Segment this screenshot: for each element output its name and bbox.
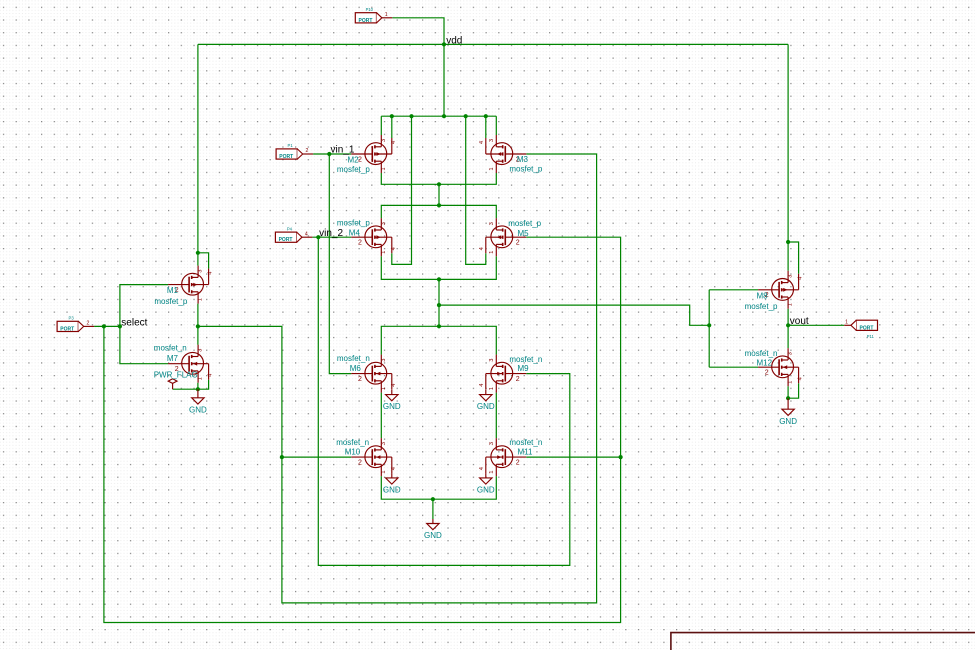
svg-text:3: 3 [489,358,495,361]
svg-text:vin_1: vin_1 [331,145,355,156]
junction vin_1 node [327,152,331,156]
transistor M1 (mosfet_p) [168,266,209,304]
svg-text:1: 1 [381,470,387,473]
svg-text:3: 3 [489,139,495,142]
wire select to M7 gate [120,326,168,363]
wire select port wire [94,325,120,327]
svg-text:M1: M1 [167,286,179,295]
junction vout node [786,323,790,327]
port vin_1 [276,149,313,159]
ground M11 bulk GND [480,473,492,484]
svg-text:3: 3 [381,222,387,225]
wire M12 bulk link [788,383,799,398]
wire select to M5/M11 gates [104,237,621,622]
wire row1-row2 link [438,184,440,205]
ground M7 source GND [192,389,204,404]
svg-text:2: 2 [516,376,520,383]
wire M1/M7 output node [197,304,199,345]
svg-text:2: 2 [358,376,362,383]
junction sub-bus vdd feed [442,114,446,118]
wire select to M1 gate [120,285,168,327]
wire M6 source to M10 drain [380,393,382,439]
junction sub-bus M2 bulk [390,114,394,118]
junction right stage gate node [707,323,711,327]
svg-text:mosfet_p: mosfet_p [154,297,187,306]
junction row1-row2 link top [437,182,441,186]
svg-text:2: 2 [306,148,309,154]
svg-text:3: 3 [489,222,495,225]
wire PWR_FLAG link [173,388,198,390]
transistor M12 (mosfet_n) [758,348,799,386]
svg-text:mosfet_n: mosfet_n [337,354,370,363]
svg-text:3: 3 [198,349,204,352]
transistor M2 (mosfet_p) [351,135,392,173]
wire vin_2 to M9 gate [318,237,570,565]
wire row1 vdd sub-bus [381,115,496,117]
svg-text:mosfet_n: mosfet_n [509,438,542,447]
junction output branch tee [437,303,441,307]
svg-text:M6: M6 [350,364,362,373]
svg-text:P11: P11 [867,334,875,339]
wire vout to M12 drain [787,325,789,348]
svg-text:GND: GND [424,531,442,540]
wire M8 source to vout [787,309,789,326]
svg-text:1: 1 [198,298,204,301]
svg-text:2: 2 [765,370,769,377]
svg-text:3: 3 [381,442,387,445]
svg-text:mosfet_n: mosfet_n [154,344,187,353]
svg-text:3: 3 [489,442,495,445]
junction sub-bus M4 riser [409,114,413,118]
svg-text:3: 3 [198,269,204,272]
wire M12 gate stub [709,366,758,368]
svg-text:mosfet_p: mosfet_p [337,165,370,174]
wire vdd mid drop [443,44,445,116]
svg-text:M2: M2 [348,156,360,165]
ground row4 common GND [427,519,439,530]
svg-text:1: 1 [381,387,387,390]
transistor M9 (mosfet_n) [486,355,527,393]
wire vdd bus [198,43,788,45]
svg-text:2: 2 [516,240,520,247]
junction output node tee [437,324,441,328]
port select [57,321,94,331]
transistor M3 (mosfet_p) [486,135,527,173]
wire M7 bulk link [198,380,209,390]
svg-text:select: select [121,317,147,328]
junction vin_2 node [316,235,320,239]
svg-text:PORT: PORT [860,325,874,331]
svg-text:1: 1 [489,470,495,473]
svg-text:1: 1 [385,12,388,18]
svg-text:1: 1 [788,303,794,306]
wire row2 source bus [381,256,496,279]
port vout [844,320,877,330]
port vin_2 [275,232,312,242]
svg-text:M12: M12 [757,359,773,368]
junction M1 drain/bulk node [196,251,200,255]
svg-text:vin_2: vin_2 [319,228,343,239]
junction M11 gate node [619,455,623,459]
ground M10 bulk GND [386,473,398,484]
wire vdd port to bus [392,18,444,45]
wire M8 gate stub [709,289,758,291]
svg-text:PWR_FLAG: PWR_FLAG [154,370,198,379]
wire row4 gnd drop [432,499,434,519]
svg-text:mosfet_n: mosfet_n [336,438,369,447]
svg-text:GND: GND [383,486,401,495]
svg-text:mosfet_p: mosfet_p [508,219,541,228]
wire M2 drain riser [380,116,382,135]
wire M2 bulk drop [391,116,393,138]
svg-text:P3: P3 [69,316,75,321]
wire M1 bulk branch [198,253,209,269]
svg-text:GND: GND [779,417,797,426]
svg-text:PORT: PORT [279,154,293,160]
svg-text:mosfet_p: mosfet_p [337,219,370,228]
junction select node [102,324,106,328]
svg-text:PORT: PORT [279,237,293,243]
sheet border corner (bottom right) [671,633,975,650]
svg-text:GND: GND [383,402,401,411]
svg-text:4: 4 [305,231,308,237]
junction sub-bus M5 riser [464,114,468,118]
wire M3 bulk drop [485,116,487,138]
transistor M11 (mosfet_n) [486,438,527,476]
wire vin_1 to M6 gate [329,154,351,374]
wire row1 source bus [381,173,496,184]
wire row3 drain bus [381,326,496,354]
svg-text:GND: GND [477,402,495,411]
wire vin_1 port wire [313,153,351,155]
wire vout to port [788,324,844,326]
transistor M5 (mosfet_p) [486,218,527,256]
svg-text:2: 2 [358,240,362,247]
power flag PWR_FLAG [168,379,177,389]
svg-text:1: 1 [489,167,495,170]
transistor M4 (mosfet_p) [351,218,392,256]
svg-text:2: 2 [516,460,520,467]
svg-text:3: 3 [381,139,387,142]
junction select gate tee [118,324,122,328]
transistor M10 (mosfet_n) [351,438,392,476]
svg-text:3: 3 [788,352,794,355]
svg-text:M9: M9 [518,364,530,373]
transistor M8 (mosfet_p) [758,271,799,309]
wire M7 source node [197,383,199,390]
svg-text:1: 1 [489,387,495,390]
svg-text:vout: vout [790,316,809,327]
wire row2 drain bus [381,205,496,218]
svg-text:mosfet_p: mosfet_p [745,302,778,311]
svg-text:PORT: PORT [359,18,373,24]
svg-text:1: 1 [845,320,848,326]
port vdd [355,13,392,23]
wire M11 gate stub [526,456,620,458]
svg-text:M4: M4 [349,228,361,237]
svg-text:P10: P10 [366,7,374,12]
svg-text:M7: M7 [167,354,179,363]
svg-text:M11: M11 [518,448,534,457]
wire M9 source to M11 drain [495,393,497,439]
wire M3 drain riser [495,116,497,135]
junction inverter out node [196,324,200,328]
svg-text:mosfet_n: mosfet_n [745,349,778,358]
junction M10 gate node [280,455,284,459]
transistor M6 (mosfet_n) [351,355,392,393]
svg-text:3: 3 [381,358,387,361]
svg-text:vdd: vdd [446,35,462,46]
svg-text:3: 3 [788,275,794,278]
svg-text:1: 1 [489,251,495,254]
junction row2 source tee [437,277,441,281]
svg-text:1: 1 [788,381,794,384]
svg-text:1: 1 [381,167,387,170]
ground M6 bulk GND [386,390,398,401]
transistor M7 (mosfet_n) [168,345,209,383]
wire row4 source bus [381,476,496,499]
wire M8/M12 gate link [708,290,710,367]
wire row2 source to output [438,279,440,326]
svg-text:1: 1 [381,251,387,254]
svg-text:M3: M3 [517,155,529,164]
wire vdd right drop to M8 [787,44,789,270]
wire M5 bulk riser [466,116,486,264]
svg-text:P4: P4 [287,226,293,231]
ground M9 bulk GND [480,390,492,401]
wire inverter out to M10 gate [198,154,597,603]
junction M7 source/bulk/gnd node [196,387,200,391]
svg-text:1: 1 [198,377,204,380]
junction M8 drain/bulk node [786,240,790,244]
wire M12 source drop [787,386,789,398]
junction M12 source/bulk node [786,396,790,400]
svg-text:mosfet_p: mosfet_p [509,164,542,173]
ground M12 source GND [782,398,794,415]
wire output to right stage [439,305,709,325]
junction row1-row2 link bottom [437,203,441,207]
svg-text:M5: M5 [518,229,530,238]
svg-text:PORT: PORT [60,326,74,332]
svg-text:GND: GND [189,405,207,414]
svg-text:M10: M10 [345,448,361,457]
junction row4 gnd tee [431,497,435,501]
svg-text:2: 2 [87,321,90,327]
wire M4 bulk riser [392,116,412,264]
wire vin_2 port wire [312,236,351,238]
wire M8 bulk branch [788,242,799,274]
junction vdd label node [442,42,446,46]
svg-text:2: 2 [358,460,362,467]
svg-text:GND: GND [477,486,495,495]
svg-text:mosfet_n: mosfet_n [509,355,542,364]
wire M10 gate stub [282,456,351,458]
svg-text:M8: M8 [757,292,769,301]
wire vdd left drop to M1 drain [197,44,199,265]
svg-text:P1: P1 [288,143,294,148]
junction sub-bus M3 bulk [484,114,488,118]
